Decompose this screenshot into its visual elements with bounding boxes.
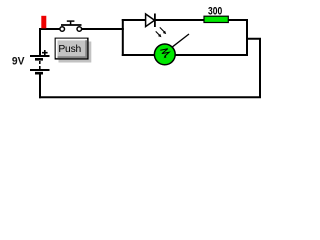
svg-text:9V: 9V [12, 56, 25, 68]
svg-text:300: 300 [208, 5, 222, 17]
svg-text:Push: Push [58, 44, 81, 55]
